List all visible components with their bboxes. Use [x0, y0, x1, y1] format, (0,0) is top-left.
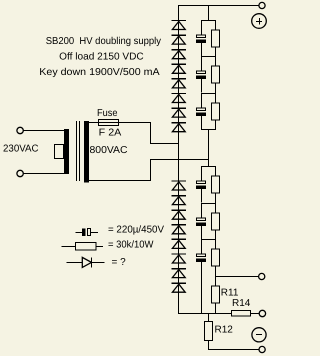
svg-text:SB200 HV doubling supply: SB200 HV doubling supply — [46, 36, 161, 47]
svg-text:= 220µ/450V: = 220µ/450V — [108, 224, 164, 235]
svg-text:230VAC: 230VAC — [3, 144, 39, 155]
svg-text:R12: R12 — [215, 325, 234, 336]
svg-text:Fuse: Fuse — [97, 108, 118, 119]
svg-text:= ?: = ? — [112, 257, 127, 268]
svg-text:F 2A: F 2A — [99, 128, 122, 139]
svg-text:R14: R14 — [232, 298, 251, 309]
svg-text:Key down 1900V/500 mA: Key down 1900V/500 mA — [39, 67, 160, 78]
svg-text:R11: R11 — [221, 287, 239, 298]
svg-text:= 30k/10W: = 30k/10W — [108, 240, 154, 251]
svg-text:Off load 2150 VDC: Off load 2150 VDC — [59, 52, 144, 63]
svg-text:800VAC: 800VAC — [90, 145, 128, 156]
